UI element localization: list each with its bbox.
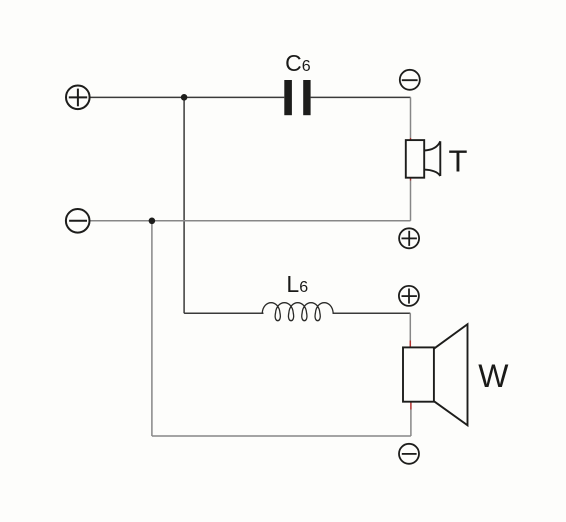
terminal - input (left bottom) bbox=[66, 209, 90, 233]
wire bottom rail bbox=[152, 435, 411, 437]
wire woofer top pin vertical bbox=[409, 313, 411, 340]
wire tweeter bottom pin vertical bbox=[410, 181, 412, 221]
terminal + input (left top) bbox=[66, 86, 90, 110]
wire woofer bottom pin vertical bbox=[410, 410, 412, 437]
wire L6 rail left segment bbox=[184, 312, 263, 314]
pin stub red woofer top bbox=[409, 341, 411, 348]
terminal - woofer (bottom right) bbox=[399, 444, 419, 464]
inductor L6 bbox=[262, 303, 333, 321]
pin stub red woofer bottom bbox=[410, 402, 412, 410]
svg-text:W: W bbox=[478, 358, 509, 394]
wire minus rail horizontal bbox=[90, 220, 410, 222]
junction dot A on + rail bbox=[181, 94, 188, 101]
woofer W body bbox=[403, 347, 434, 401]
wire top (+) rail right of C6 bbox=[311, 96, 411, 98]
wire tweeter top pin vertical bbox=[410, 97, 412, 138]
wire L6 rail right segment to corner bbox=[333, 312, 411, 314]
svg-text:L6: L6 bbox=[286, 271, 308, 297]
pin stub red tweeter bottom bbox=[410, 178, 412, 181]
tweeter T body bbox=[406, 140, 424, 178]
woofer W cone bbox=[434, 324, 468, 425]
wire vertical from top junction down to L6 rail bbox=[183, 97, 185, 313]
terminal + woofer (above woofer) bbox=[399, 286, 419, 306]
wire left vertical of bottom loop bbox=[151, 221, 153, 436]
capacitor C6 bbox=[284, 80, 310, 115]
terminal + tweeter (below tweeter) bbox=[399, 228, 419, 248]
tweeter T horn bbox=[424, 141, 440, 176]
svg-text:C6: C6 bbox=[285, 50, 311, 76]
junction dot B on minus rail bbox=[149, 218, 156, 225]
wire top (+) rail left of C6 bbox=[91, 96, 285, 98]
pin stub red tweeter top bbox=[410, 138, 412, 141]
svg-text:T: T bbox=[449, 143, 468, 178]
terminal - tweeter (top right) bbox=[400, 70, 420, 90]
